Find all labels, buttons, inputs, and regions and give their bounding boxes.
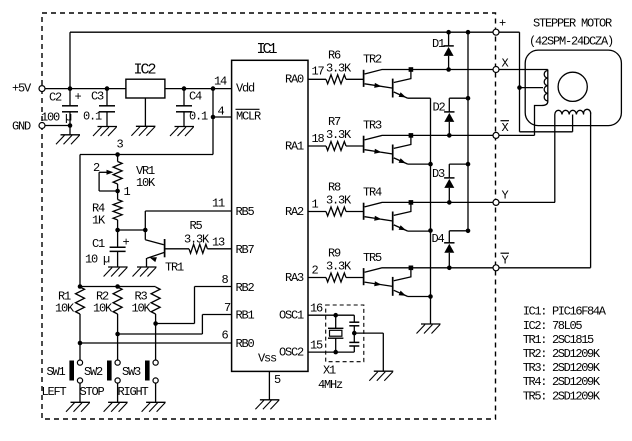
svg-text:RB2: RB2 (236, 281, 255, 295)
parts list text (523, 305, 607, 404)
svg-text:R7: R7 (328, 115, 341, 129)
transistor TR4 (darlington pair) (363, 185, 431, 231)
switch SW1 (42, 343, 83, 402)
resistor R9 (308, 247, 364, 283)
IC1 pin numbers (212, 65, 325, 388)
svg-text:11: 11 (212, 197, 225, 211)
wire + feed into motor (517, 32, 572, 132)
svg-text:D3: D3 (432, 167, 445, 181)
svg-text:LEFT: LEFT (42, 385, 67, 399)
svg-text:(42SPM-24DCZA): (42SPM-24DCZA) (529, 35, 613, 49)
wire R2 to RB1 (pin 7) (118, 315, 232, 335)
svg-text:D1: D1 (432, 37, 445, 51)
capacitor C3 (83, 89, 115, 127)
diode D2 (433, 98, 469, 135)
diode D1 (432, 32, 454, 69)
resistor R7 (308, 115, 364, 151)
svg-text:C2: C2 (49, 91, 62, 105)
svg-text:RB5: RB5 (236, 205, 255, 219)
node X terminal (493, 57, 509, 73)
svg-text:RB7: RB7 (236, 243, 255, 257)
node + terminal (493, 17, 506, 36)
svg-text:TR5: 2SD1209K: TR5: 2SD1209K (523, 389, 601, 403)
svg-text:1: 1 (312, 198, 319, 212)
wire phase X rail (411, 67, 548, 72)
svg-text:SW3: SW3 (122, 365, 141, 379)
svg-text:TR1: TR1 (165, 261, 184, 275)
svg-text:STEPPER MOTOR: STEPPER MOTOR (533, 17, 612, 31)
transistor TR1 (145, 230, 189, 275)
svg-text:3.3K: 3.3K (326, 61, 352, 75)
svg-text:IC2: 78L05: IC2: 78L05 (523, 319, 583, 333)
IC1 left pin labels (236, 82, 278, 366)
svg-text:15: 15 (310, 339, 323, 353)
svg-text:RA0: RA0 (285, 73, 304, 87)
ground below SW3 (142, 402, 166, 412)
svg-text:4: 4 (218, 105, 225, 119)
svg-text:D2: D2 (433, 101, 446, 115)
svg-text:R8: R8 (328, 181, 341, 195)
svg-text:3.3K: 3.3K (326, 128, 352, 142)
wire OSC2 pin 15 (308, 350, 354, 355)
svg-text:X: X (502, 57, 509, 71)
resistor R4 (92, 191, 122, 232)
svg-text:SW2: SW2 (84, 365, 103, 379)
diode D4 (432, 231, 469, 268)
svg-text:TR4: 2SD1209K: TR4: 2SD1209K (523, 375, 601, 389)
node X-bar terminal (493, 121, 509, 139)
crystal X1 (318, 305, 364, 392)
svg-text:10K: 10K (132, 302, 152, 316)
svg-text:3.3K: 3.3K (326, 260, 352, 274)
ground below SW1 (66, 402, 90, 412)
svg-text:10K: 10K (93, 302, 113, 316)
node Y-bar terminal (493, 253, 509, 271)
svg-text:RA2: RA2 (285, 205, 304, 219)
capacitor C2 (41, 89, 82, 126)
svg-text:GND: GND (12, 120, 31, 134)
svg-text:10 µ: 10 µ (85, 253, 110, 267)
transistor TR2 (darlington pair) (363, 53, 431, 99)
svg-text:5: 5 (274, 373, 281, 387)
wire phase Y rail (411, 200, 555, 205)
svg-text:RIGHT: RIGHT (118, 385, 149, 399)
resistor R8 (308, 181, 364, 217)
svg-text:TR3: TR3 (363, 118, 382, 132)
stepper motor body (525, 17, 621, 126)
capacitor C4 (176, 89, 208, 127)
svg-text:8: 8 (222, 273, 229, 287)
svg-text:TR2: TR2 (363, 53, 382, 67)
wire C1/R4 node to TR1 base and RB5 (118, 211, 232, 232)
svg-text:RA3: RA3 (285, 271, 304, 285)
svg-text:Y: Y (502, 189, 509, 203)
svg-text:TR2: 2SD1209K: TR2: 2SD1209K (523, 347, 601, 361)
resistor R3 (132, 287, 161, 326)
svg-text:3: 3 (117, 138, 124, 152)
svg-text:17: 17 (312, 65, 325, 79)
wire phase X-bar rail (411, 133, 535, 138)
svg-text:7: 7 (224, 301, 231, 315)
wire +V vertical rail for flyback diodes (466, 30, 471, 233)
ground below SW2 (104, 402, 128, 412)
svg-text:6: 6 (222, 329, 229, 343)
wire GND input (45, 123, 72, 128)
svg-text:TR3: 2SD1209K: TR3: 2SD1209K (523, 361, 601, 375)
ground below TR1 emitter (133, 267, 157, 277)
switch SW3 (118, 324, 159, 403)
svg-text:4MHz: 4MHz (318, 378, 343, 392)
svg-text:1K: 1K (92, 214, 106, 228)
ground below crystal (369, 371, 393, 381)
wire R1 to RB0 (pin 6) (80, 342, 232, 344)
resistor R5 (184, 219, 232, 253)
capacitor load caps (349, 315, 359, 352)
transistor TR3 (darlington pair) (363, 118, 431, 164)
ground below C1 (104, 267, 128, 277)
svg-text:D4: D4 (432, 232, 445, 246)
wire R3 to RB2 (pin 8) (156, 287, 232, 324)
svg-text:STOP: STOP (80, 385, 105, 399)
svg-text:10K: 10K (55, 302, 75, 316)
ground below emitter rail (417, 324, 441, 334)
wire +5V input rail (45, 86, 232, 91)
svg-text:R9: R9 (328, 247, 341, 261)
ground below C3 (93, 127, 117, 137)
circuit boundary dashed box (42, 13, 496, 419)
svg-text:14: 14 (214, 75, 227, 89)
svg-text:TR4: TR4 (363, 185, 382, 199)
svg-text:10K: 10K (136, 176, 156, 190)
wire crystal caps to ground (354, 333, 383, 371)
wire phase Y-bar rail (411, 266, 591, 271)
svg-text:TR5: TR5 (363, 251, 382, 265)
svg-text:MCLR: MCLR (236, 110, 261, 124)
svg-text:Y: Y (502, 254, 509, 268)
svg-text:16: 16 (310, 302, 323, 316)
diode D3 (432, 164, 468, 202)
ground below C4 (170, 127, 194, 137)
resistor R6 (308, 48, 364, 84)
wire OSC1 pin 16 (308, 313, 354, 318)
svg-text:C3: C3 (91, 90, 104, 104)
svg-text:Vdd: Vdd (236, 82, 255, 96)
node Y terminal (493, 189, 509, 206)
switch SW2 (80, 334, 121, 402)
resistor R1 (55, 287, 85, 345)
svg-text:+: + (75, 90, 82, 104)
IC1 right pin labels (279, 73, 304, 360)
svg-text:TR1: 2SC1815: TR1: 2SC1815 (523, 333, 594, 347)
svg-text:C1: C1 (92, 237, 105, 251)
op-amp U1 : microcontroller IC1 box (232, 41, 308, 371)
svg-text:X1: X1 (323, 364, 336, 378)
svg-text:13: 13 (212, 236, 225, 250)
svg-text:+5V: +5V (12, 82, 32, 96)
wire Vss pin 5 to ground (268, 371, 270, 399)
ground below C2 (56, 126, 80, 145)
svg-text:OSC1: OSC1 (279, 309, 304, 323)
svg-text:X: X (502, 121, 509, 135)
svg-text:SW1: SW1 (47, 365, 66, 379)
svg-text:IC1: PIC16F84A: IC1: PIC16F84A (523, 305, 607, 319)
svg-text:2: 2 (312, 264, 319, 278)
wire pull-up top rail (78, 284, 156, 289)
svg-text:3.3K: 3.3K (326, 194, 352, 208)
wire MCLR net (pin4 pull-up, node 3) (80, 89, 232, 287)
svg-text:RB0: RB0 (236, 337, 255, 351)
svg-text:R5: R5 (190, 219, 203, 233)
inductor Y coil (555, 109, 591, 267)
svg-text:1: 1 (124, 185, 131, 199)
ground below IC2 (131, 126, 155, 136)
svg-text:IC2: IC2 (134, 62, 156, 79)
svg-text:C4: C4 (189, 90, 202, 104)
svg-text:IC1: IC1 (257, 41, 278, 58)
inductor X coil (535, 70, 548, 136)
svg-text:Vss: Vss (258, 352, 277, 366)
regulator IC2 (126, 62, 165, 127)
resistor R2 (93, 287, 122, 336)
svg-text:+: + (499, 17, 506, 31)
node +5V terminal (12, 82, 45, 96)
svg-text:100 µ: 100 µ (41, 111, 72, 125)
node GND terminal (12, 120, 45, 134)
ground below Vss (255, 400, 279, 410)
svg-text:RB1: RB1 (236, 309, 255, 323)
potentiometer VR1 (93, 155, 156, 200)
svg-text:R6: R6 (328, 48, 341, 62)
wire common emitter rail (428, 98, 433, 324)
svg-text:OSC2: OSC2 (279, 346, 304, 360)
transistor TR5 (darlington pair) (363, 251, 431, 297)
svg-text:RA1: RA1 (285, 140, 304, 154)
capacitor C1 (85, 230, 130, 267)
svg-text:18: 18 (312, 132, 325, 146)
wire top +V rail to motor (70, 32, 520, 88)
